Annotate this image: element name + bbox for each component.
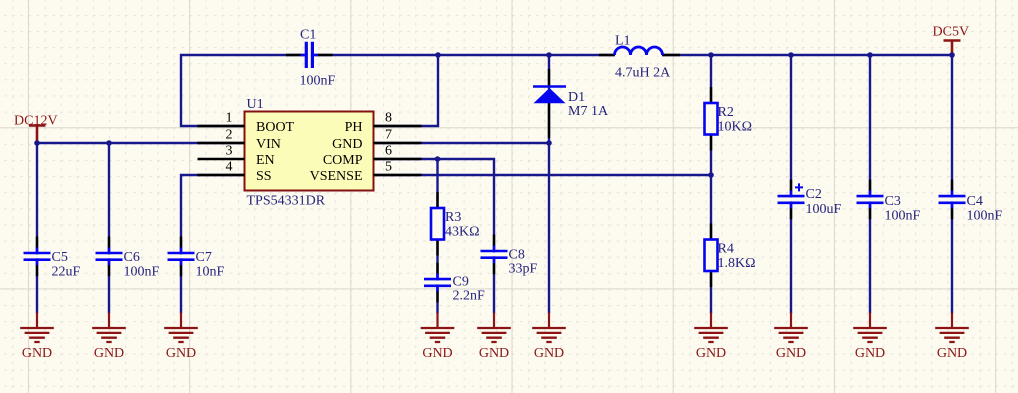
svg-text:C7: C7	[196, 250, 212, 265]
wire PH net: pin8 riser to top rail and C1 right plate to L1	[314, 55, 616, 126]
svg-text:2: 2	[226, 128, 233, 143]
svg-text:2.2nF: 2.2nF	[453, 289, 486, 304]
svg-text:100uF: 100uF	[806, 202, 842, 217]
capacitor C4	[938, 198, 966, 202]
svg-text:VSENSE: VSENSE	[310, 169, 363, 184]
svg-text:R3: R3	[445, 210, 461, 225]
ground GND at x=711	[710, 313, 712, 328]
resistor R4	[710, 224, 712, 288]
svg-text:GND: GND	[696, 346, 726, 361]
resistor R3	[436, 192, 438, 256]
svg-text:DC5V: DC5V	[933, 25, 970, 40]
svg-text:8: 8	[385, 111, 392, 126]
junction node COMP/R3 junction	[435, 156, 441, 162]
ground GND at x=952	[951, 313, 953, 328]
junction node D1 cathode at rail	[546, 52, 552, 58]
junction node IC GND to D1 column	[546, 140, 552, 146]
svg-text:TPS54331DR: TPS54331DR	[247, 194, 326, 209]
resistor R2	[710, 87, 712, 151]
pin 5 VSENSE lead	[374, 174, 422, 176]
wire VSENSE net: pin5 to divider midpoint	[374, 174, 712, 176]
svg-text:C1: C1	[300, 28, 316, 43]
svg-text:5: 5	[385, 160, 392, 175]
wire C6 branch	[108, 143, 110, 314]
op-amp/regulator IC U1 TPS54331DR body	[245, 112, 374, 191]
svg-text:PH: PH	[345, 120, 363, 135]
wire DC5V net: L1 right along top rail to DC5V	[662, 54, 952, 56]
pin 4 SS lead	[198, 174, 245, 176]
ground GND at x=870	[869, 313, 871, 328]
svg-text:GND: GND	[166, 346, 196, 361]
svg-text:DC12V: DC12V	[14, 113, 58, 128]
svg-text:GND: GND	[332, 137, 362, 152]
wire C4 branch	[951, 55, 953, 314]
pin 8 PH lead	[374, 125, 422, 127]
svg-text:1: 1	[226, 111, 233, 126]
ground GND at x=437.5	[436, 313, 438, 328]
junction node DC12V/C5 junction	[34, 140, 40, 146]
junction node PH/C1 top rail	[435, 52, 441, 58]
capacitor C1	[286, 54, 333, 56]
capacitor C2	[777, 198, 805, 202]
wire C5 branch	[36, 143, 38, 314]
wire COMP net: pin6 to C8 column	[374, 159, 495, 314]
pin 2 VIN lead	[198, 142, 245, 144]
svg-text:100nF: 100nF	[885, 209, 921, 224]
capacitor C9	[424, 281, 452, 285]
svg-text:BOOT: BOOT	[256, 120, 295, 135]
svg-text:4: 4	[226, 160, 233, 175]
ground GND at x=791	[790, 313, 792, 328]
svg-text:100nF: 100nF	[300, 74, 336, 89]
svg-text:U1: U1	[247, 97, 264, 112]
junction node VSENSE divider midpoint	[708, 172, 714, 178]
svg-text:R2: R2	[718, 105, 734, 120]
wire R3-C9 branch	[436, 159, 438, 314]
svg-text:C3: C3	[885, 194, 901, 209]
svg-text:C8: C8	[509, 248, 525, 263]
svg-text:L1: L1	[615, 34, 631, 49]
capacitor C6	[95, 254, 123, 258]
wire R2-R4 divider column	[710, 55, 712, 314]
pin 6 COMP lead	[374, 158, 422, 160]
svg-text:C6: C6	[124, 250, 140, 265]
wire VIN net: DC12V rail to pin2	[37, 142, 245, 144]
junction node C2 at rail	[788, 52, 794, 58]
junction node R2 top at rail	[708, 52, 714, 58]
svg-text:GND: GND	[22, 346, 52, 361]
svg-text:C5: C5	[52, 250, 68, 265]
power port DC12V	[29, 126, 46, 144]
svg-text:22uF: 22uF	[52, 265, 81, 280]
svg-text:3: 3	[226, 144, 233, 159]
ground GND at x=494	[493, 313, 495, 328]
wire BOOT net: pin1 to C1 left plate via top-left riser	[181, 55, 305, 126]
wire C3 branch	[869, 55, 871, 314]
diode D1	[548, 69, 550, 138]
svg-text:COMP: COMP	[323, 153, 363, 168]
svg-text:C4: C4	[967, 194, 983, 209]
svg-text:100nF: 100nF	[124, 265, 160, 280]
svg-text:GND: GND	[94, 346, 124, 361]
pin 1 BOOT lead	[198, 125, 245, 127]
ground GND at x=37	[36, 313, 38, 328]
wire C2 branch	[790, 55, 792, 314]
svg-text:EN: EN	[256, 153, 275, 168]
power port DC5V	[944, 41, 961, 56]
capacitor C8	[480, 252, 508, 256]
junction node C3 at rail	[867, 52, 873, 58]
svg-text:GND: GND	[479, 346, 509, 361]
svg-text:GND: GND	[855, 346, 885, 361]
wire switch node / ground column through D1	[548, 55, 550, 314]
svg-text:6: 6	[385, 144, 392, 159]
svg-text:1.8KΩ: 1.8KΩ	[718, 256, 756, 271]
svg-text:GND: GND	[534, 346, 564, 361]
svg-text:GND: GND	[776, 346, 806, 361]
capacitor C3	[856, 198, 884, 202]
svg-text:GND: GND	[422, 346, 452, 361]
svg-text:10KΩ: 10KΩ	[718, 120, 753, 135]
svg-text:M7 1A: M7 1A	[568, 104, 609, 119]
wire IC GND pin7 to diode column	[374, 142, 550, 144]
svg-text:43KΩ: 43KΩ	[445, 225, 480, 240]
pin 7 GND lead	[374, 142, 422, 144]
svg-text:SS: SS	[256, 169, 272, 184]
inductor L1	[599, 54, 680, 56]
svg-text:R4: R4	[718, 242, 734, 257]
svg-text:7: 7	[385, 128, 392, 143]
capacitor C7	[167, 254, 195, 258]
svg-text:VIN: VIN	[256, 137, 281, 152]
svg-text:GND: GND	[937, 346, 967, 361]
svg-text:C2: C2	[806, 187, 822, 202]
wire SS net: pin4 to C7	[181, 175, 245, 314]
capacitor C5	[23, 254, 51, 258]
ground GND at x=181	[180, 313, 182, 328]
junction node C4/DC5V at rail	[949, 52, 955, 58]
svg-text:D1: D1	[568, 90, 585, 105]
svg-text:4.7uH 2A: 4.7uH 2A	[615, 66, 671, 81]
svg-text:C9: C9	[453, 275, 469, 290]
junction node C6 junction	[106, 140, 112, 146]
svg-text:33pF: 33pF	[509, 262, 538, 277]
ground GND at x=549	[548, 313, 550, 328]
pin 3 EN lead	[198, 158, 245, 160]
ground GND at x=109	[108, 313, 110, 328]
svg-text:100nF: 100nF	[967, 209, 1003, 224]
svg-text:10nF: 10nF	[196, 265, 225, 280]
